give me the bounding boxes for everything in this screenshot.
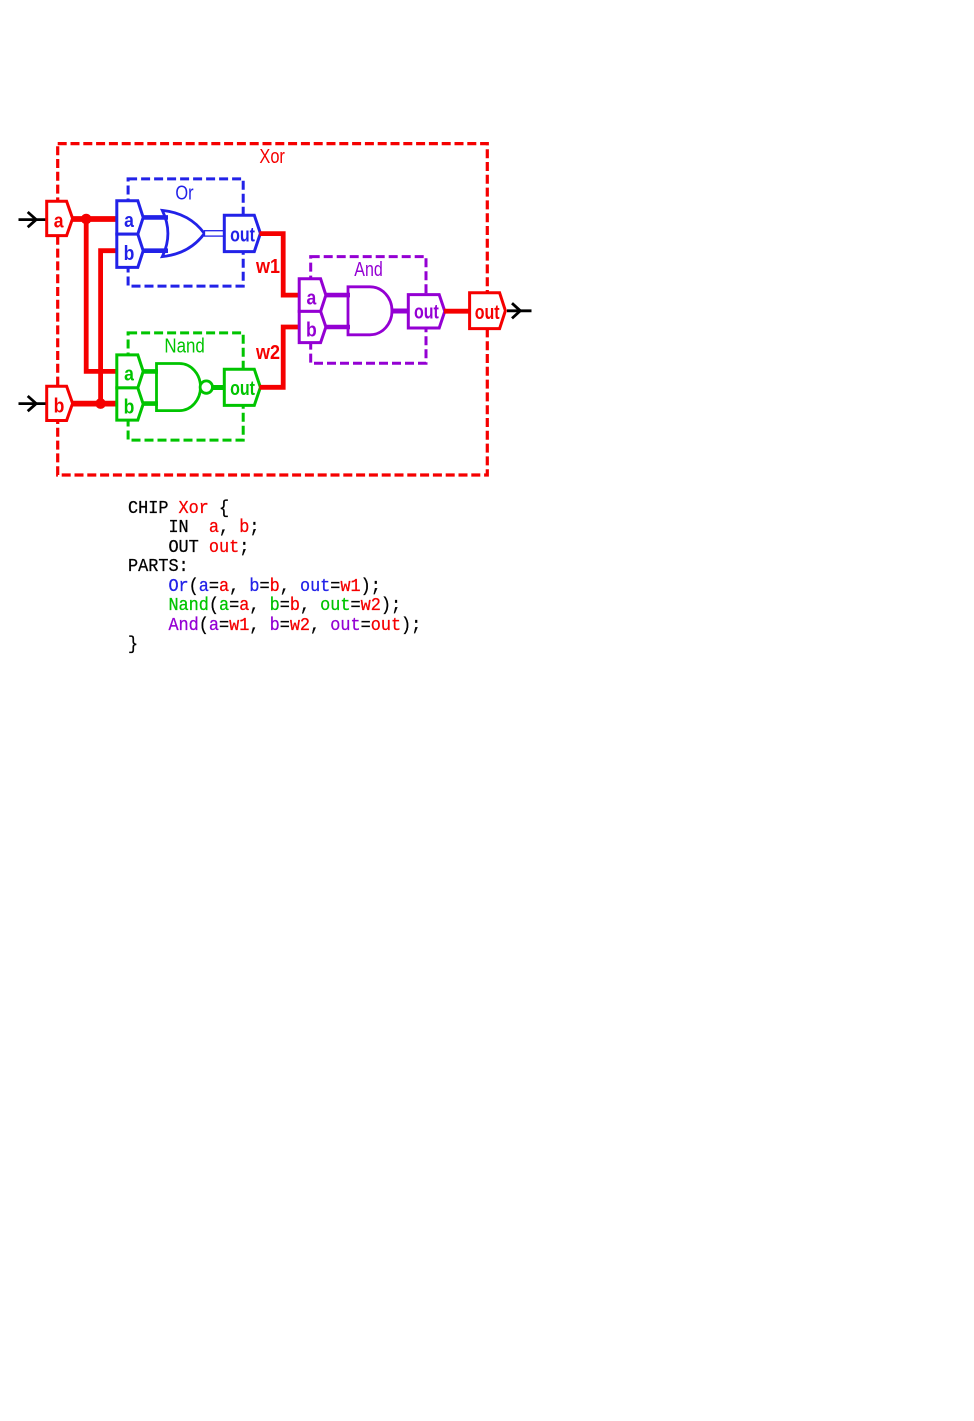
Or.b connector: [140, 248, 168, 253]
svg-text:b: b: [124, 395, 135, 417]
chip boundary Or: [128, 179, 243, 286]
svg-text:And: And: [354, 259, 383, 281]
Or.a connector: [140, 215, 168, 220]
Nand out connector: [211, 385, 226, 390]
Or pin b: [117, 234, 143, 267]
Nand.b connector: [140, 401, 158, 406]
Nand.a connector: [140, 369, 158, 374]
svg-text:out: out: [475, 301, 500, 323]
wire w1: [260, 234, 302, 296]
svg-text:a: a: [124, 363, 134, 385]
Or out connector: [205, 231, 226, 236]
svg-text:out: out: [230, 377, 255, 399]
wire node-a to Nand.a: [86, 219, 118, 371]
HDL code block: [128, 499, 421, 655]
svg-text:a: a: [54, 209, 64, 231]
And pin a: [299, 279, 326, 312]
svg-text:w2: w2: [255, 342, 280, 364]
svg-text:Nand: Nand: [164, 336, 204, 358]
and-gate body U3: [348, 287, 392, 335]
svg-text:Xor: Xor: [259, 146, 285, 168]
chip boundary And: [311, 257, 426, 364]
wire b to Nand.b: [70, 401, 118, 407]
wire w2: [260, 327, 302, 387]
svg-text:Or: Or: [175, 183, 193, 205]
svg-text:b: b: [306, 318, 317, 340]
svg-text:out: out: [230, 224, 255, 246]
input arrow a: [19, 212, 46, 227]
input pin a: [47, 201, 73, 235]
Or pin out: [224, 215, 260, 251]
wire And.out to out: [444, 309, 471, 314]
Nand pin b: [117, 388, 143, 420]
output arrow: [507, 303, 532, 318]
chip boundary Nand: [128, 333, 243, 440]
input arrow b: [19, 396, 46, 411]
chip boundary Xor: [58, 144, 488, 475]
svg-text:b: b: [124, 242, 135, 264]
Or pin a: [117, 201, 143, 234]
And.a connector: [324, 293, 350, 298]
input pin b: [47, 386, 73, 420]
or-gate body U1: [162, 210, 204, 256]
svg-text:w1: w1: [255, 256, 280, 278]
junction node a: [81, 214, 92, 225]
wire a to Or.a: [70, 216, 118, 222]
svg-text:a: a: [124, 209, 134, 231]
And pin b: [299, 311, 326, 342]
Nand pin out: [224, 369, 260, 405]
nand bubble: [200, 381, 212, 393]
wire node-b to Or.b: [101, 251, 118, 404]
svg-text:a: a: [307, 286, 317, 308]
And out connector: [391, 309, 411, 314]
And pin out: [408, 295, 445, 328]
Nand pin a: [117, 355, 143, 388]
svg-text:b: b: [54, 394, 65, 416]
nand-gate body U2: [157, 364, 201, 411]
junction node b: [95, 398, 106, 409]
And.b connector: [324, 325, 350, 330]
output pin out: [470, 293, 506, 329]
svg-text:out: out: [414, 301, 439, 323]
